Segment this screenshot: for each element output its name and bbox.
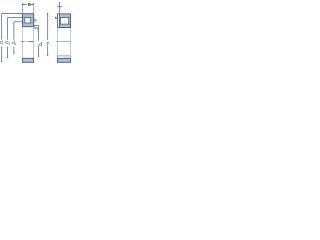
diameter D dimension [2,14,23,63]
svg-text:b1: b1 [34,26,38,31]
right panel bottom band [58,58,71,62]
svg-text:d1: d1 [12,40,16,46]
svg-text:b: b [55,16,57,20]
right panel roller (white) [61,18,69,25]
arrowheads F line [47,13,48,15]
svg-text:F: F [47,41,50,46]
D1 arrowhead bottom [7,57,8,59]
right roller cage line [64,20,66,23]
left panel raceway lines [23,17,34,19]
d line arrowhead bottom [38,56,39,58]
left panel top section (outer+inner ring shaded) [23,14,34,27]
svg-text:D1: D1 [5,40,10,46]
d1 arrowhead bottom [13,53,14,55]
left panel extension lines [23,27,34,58]
dimension cross over right panel [57,3,62,14]
left panel roller (white) [25,18,31,24]
bore dimension line left panel [21,41,34,43]
B line arrowheads [23,4,25,5]
right panel extension lines [58,28,71,56]
diameter D1 dimension [8,18,23,59]
dimension B line over left panel [22,3,34,13]
svg-text:D: D [0,40,3,45]
right panel shaded ring block [59,14,70,28]
diameter d1 dimension [14,22,22,54]
right panel raceway lines [60,17,71,19]
arrowhead up [59,2,60,4]
right panel bottom side stubs [57,56,59,59]
svg-text:B: B [28,2,31,7]
mid dimension d line [34,26,39,57]
left roller cage line [27,20,29,23]
svg-text:d: d [39,42,42,48]
left panel bottom band [23,58,34,62]
D arrowhead bottom [1,61,2,63]
right panel bottom light gap tint [64,56,70,58]
bore dimension line right panel [56,40,70,42]
right panel bottom top line [57,55,70,57]
right panel top section outer frame [58,14,71,28]
mid dimension F line [47,13,49,56]
